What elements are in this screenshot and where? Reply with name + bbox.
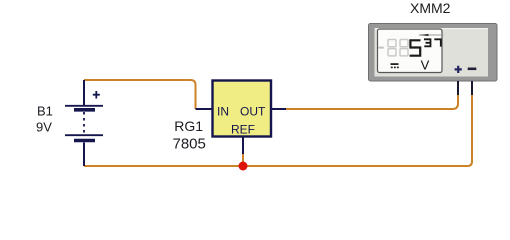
svg-text:OUT: OUT xyxy=(240,105,266,119)
svg-text:IN: IN xyxy=(217,105,229,119)
svg-text:B1: B1 xyxy=(37,104,53,119)
svg-text:7805: 7805 xyxy=(173,136,206,153)
svg-text:XMM2: XMM2 xyxy=(410,0,451,16)
svg-text:V: V xyxy=(421,57,430,72)
svg-text:9V: 9V xyxy=(36,120,52,135)
svg-text:REF: REF xyxy=(231,123,255,137)
svg-text:RG1: RG1 xyxy=(174,118,203,134)
